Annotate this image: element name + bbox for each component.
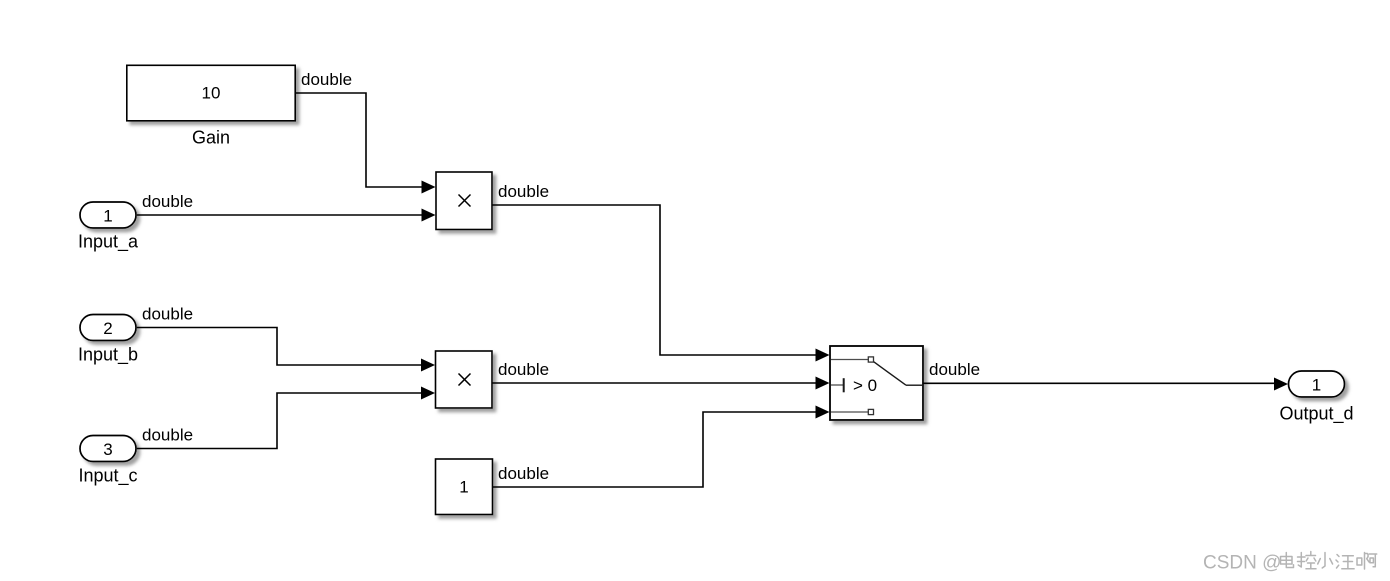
internal line input 2 with criteria tick — [831, 384, 843, 386]
product block Product1 — [436, 172, 492, 230]
svg-text:double: double — [929, 360, 980, 379]
svg-text:CSDN @: CSDN @ — [1203, 553, 1281, 574]
svg-text:1: 1 — [103, 207, 112, 226]
switch arm diagonal — [874, 362, 906, 385]
svg-text:double: double — [498, 360, 549, 379]
outport Output_d (port 1) — [1289, 371, 1345, 397]
svg-text:Input_a: Input_a — [78, 232, 139, 253]
svg-text:3: 3 — [103, 440, 112, 459]
inport Input_a (port 1) — [80, 202, 136, 228]
hanzi 啊 — [1357, 553, 1377, 570]
svg-text:> 0: > 0 — [853, 376, 877, 395]
internal line to output — [906, 384, 922, 386]
switch block Switch (criteria u2 > 0) — [830, 346, 923, 420]
inport Input_c (port 3) — [80, 436, 136, 462]
wire Input_a to Product1 input 2 — [137, 209, 436, 222]
svg-text:Input_c: Input_c — [78, 466, 137, 487]
svg-text:Input_b: Input_b — [78, 345, 138, 366]
inport Input_b (port 2) — [80, 315, 136, 341]
constant block Gain (value 10) — [127, 65, 295, 121]
svg-text:double: double — [142, 305, 193, 324]
wire Gain output to Product1 input 1 — [295, 93, 435, 194]
svg-text:double: double — [498, 182, 549, 201]
svg-text:10: 10 — [202, 84, 221, 103]
wire Input_b to Product2 input 1 — [137, 328, 435, 372]
internal line input 1 — [831, 359, 868, 361]
svg-text:1: 1 — [459, 478, 468, 497]
svg-text:Gain: Gain — [192, 128, 230, 148]
wire Product1 output to Switch input 1 — [493, 205, 830, 362]
hanzi 汪 — [1336, 555, 1354, 569]
internal line input 3 — [831, 411, 868, 413]
hanzi 控 — [1298, 552, 1317, 569]
hanzi 小 — [1318, 553, 1333, 569]
svg-text:double: double — [142, 192, 193, 211]
svg-text:Output_d: Output_d — [1279, 404, 1353, 425]
wire Product2 output to Switch input 2 — [493, 377, 830, 390]
internal port square input 3 — [868, 409, 873, 414]
watermark CSDN @电控小汪啊 — [1203, 552, 1377, 574]
svg-text:double: double — [142, 426, 193, 445]
svg-text:1: 1 — [1312, 376, 1321, 395]
wire Constant output to Switch input 3 — [493, 406, 830, 488]
product block Product2 — [436, 351, 493, 408]
constant block Constant (value 1) — [436, 459, 493, 515]
hanzi 电 — [1281, 553, 1294, 568]
wire Switch output to Output_d — [924, 378, 1289, 391]
svg-text:2: 2 — [103, 319, 112, 338]
svg-text:double: double — [498, 464, 549, 483]
internal port square input 1 — [868, 357, 873, 362]
wire Input_c to Product2 input 2 — [137, 387, 435, 449]
svg-text:double: double — [301, 70, 352, 89]
